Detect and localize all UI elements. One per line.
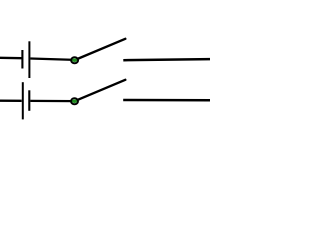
switch S2 pivot ring bbox=[71, 98, 78, 104]
switch S2 pivot green contact dot bbox=[72, 99, 77, 103]
battery B2 long plate (positive, left) bbox=[22, 82, 24, 119]
wire: battery B1 to switch S1 pivot bbox=[30, 59, 74, 60]
switch S1 pivot ring bbox=[71, 57, 78, 63]
wire: left lead of battery B2 (bottom row) bbox=[0, 100, 22, 102]
wire: left lead of battery B1 (top row) bbox=[0, 57, 22, 60]
switch S1 blade (open, up-right) bbox=[75, 39, 126, 60]
battery B1 long plate (positive, right) bbox=[28, 41, 30, 78]
battery B1 short plate (negative, left) bbox=[21, 50, 23, 69]
wire: switch S1 fixed contact to right edge (top row) bbox=[123, 59, 210, 60]
battery B2 short plate (negative, right) bbox=[28, 90, 30, 111]
switch S2 blade (open, up-right) bbox=[75, 80, 126, 101]
wire: switch S2 fixed contact to right edge (bottom row) bbox=[123, 99, 210, 102]
wire: battery B2 to switch S2 pivot bbox=[30, 100, 74, 102]
switch S1 pivot green contact dot bbox=[72, 58, 77, 62]
